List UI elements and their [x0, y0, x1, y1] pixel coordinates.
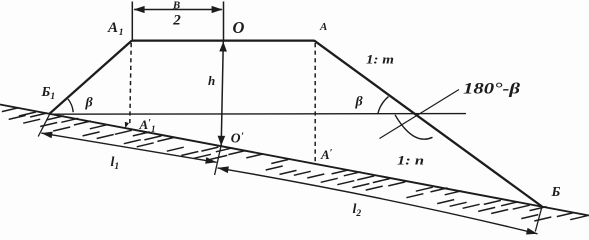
right slope line A-B: [314, 41, 542, 207]
l1 dimension line: [41, 133, 216, 162]
svg-text:Б: Б: [551, 185, 561, 200]
svg-text:180°-β: 180°-β: [463, 81, 521, 98]
B/2 left extension line: [131, 2, 133, 41]
O' extension line below ground: [215, 147, 221, 176]
svg-text:β: β: [85, 96, 94, 111]
embankment top line A1-A: [132, 39, 315, 41]
svg-text:β: β: [355, 95, 364, 110]
ground surface line: [0, 105, 589, 216]
svg-text:О: О: [233, 18, 245, 37]
horizontal reference line through B1: [49, 113, 466, 116]
left slope line A1-B1: [49, 41, 132, 115]
dashed projection line below A1: [130, 43, 131, 124]
B1 extension line: [38, 115, 49, 137]
right beta angle arc: [378, 97, 389, 114]
B/2 dimension line: [134, 9, 222, 11]
left beta angle arc: [68, 99, 73, 112]
ground hatching: [2, 108, 587, 221]
svg-text:1: n: 1: n: [397, 153, 424, 168]
svg-text:h: h: [208, 73, 215, 88]
dashed projection line below A: [314, 43, 316, 163]
B extension line: [535, 207, 542, 232]
svg-text:В: В: [172, 0, 180, 12]
l2 dimension line (slightly sagging): [218, 168, 538, 234]
svg-text:А: А: [319, 21, 327, 33]
small arrow at foot of A1 projection: [125, 122, 129, 128]
svg-text:1: m: 1: m: [366, 52, 394, 67]
O axis extension line: [223, 2, 225, 41]
svg-text:2: 2: [172, 13, 181, 29]
180-beta angle arc: [395, 115, 433, 139]
leader line for 180-beta label: [380, 90, 460, 139]
h dimension line with arrows: [221, 41, 223, 146]
